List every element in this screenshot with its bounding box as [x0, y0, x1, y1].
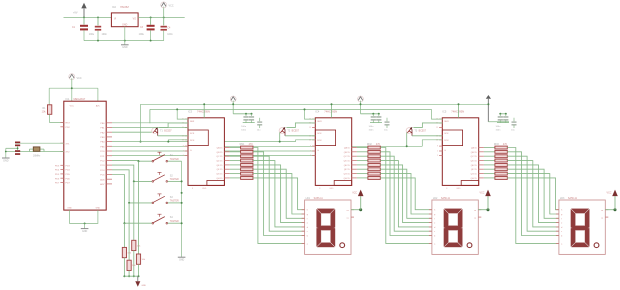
display LD2 segments figure 8	[444, 209, 462, 247]
capacitor C6 load cap lower	[15, 150, 20, 155]
wire T2 emitter elbow	[286, 123, 315, 128]
svg-text:QB 15: QB 15	[216, 152, 223, 154]
wire IC1 GND pins	[70, 210, 98, 223]
resistor R33 and wire to display segment	[484, 155, 559, 231]
supply arrow down resistor common	[135, 276, 146, 287]
node C3 junction	[150, 16, 152, 18]
supply VCC arrow module 1	[230, 96, 252, 115]
capacitor C4	[161, 17, 174, 36]
svg-text:QF 15: QF 15	[344, 169, 351, 171]
svg-text:QD 15: QD 15	[471, 161, 478, 163]
wire column to resistor R5	[123, 223, 125, 247]
svg-text:GND: GND	[456, 188, 461, 190]
wire C4 to rail	[163, 31, 165, 41]
svg-text:c: c	[307, 231, 308, 233]
transistor T2	[279, 127, 299, 136]
svg-text:SA56-11: SA56-11	[441, 197, 451, 200]
svg-text:R1: R1	[42, 107, 46, 110]
svg-text:+9V: +9V	[73, 12, 78, 15]
wire S4 to ground rail	[168, 222, 182, 224]
svg-text:QG 15: QG 15	[344, 174, 351, 176]
capacitors bypass module 2	[369, 114, 383, 132]
svg-text:RCK: RCK	[190, 140, 195, 142]
seven segment display LD2	[429, 197, 481, 255]
supply VCC arrow above IC1	[69, 74, 82, 89]
wire T2 base riser	[279, 132, 281, 142]
resistor R3 pullup	[132, 240, 142, 250]
resistor R21 and wire to display segment	[357, 146, 432, 243]
svg-text:100n: 100n	[102, 33, 108, 36]
wire rail2 drop to IC3 pin 10	[176, 108, 188, 119]
svg-text:RN1: RN1	[240, 143, 245, 146]
wire rail2 drop to IC5 pin 10	[432, 109, 443, 119]
svg-text:100n: 100n	[496, 126, 502, 128]
shift register IC3 74HC595 module 1	[188, 109, 224, 185]
svg-text:QE 15: QE 15	[216, 165, 223, 167]
wire C1 branch	[83, 17, 85, 24]
capacitor C5 load cap upper	[15, 142, 20, 147]
svg-text:QB 15: QB 15	[344, 152, 351, 154]
svg-text:100n: 100n	[241, 129, 247, 131]
wire T2 collector to IC4	[285, 135, 315, 137]
svg-text:78L05Z: 78L05Z	[120, 5, 129, 9]
svg-text:AVC: AVC	[96, 105, 101, 108]
svg-text:2: 2	[437, 155, 438, 157]
node VCC junction above IC1	[71, 87, 73, 89]
resistor R17 and wire to display segment	[230, 172, 305, 214]
svg-text:RN2: RN2	[367, 143, 372, 146]
svg-text:100n: 100n	[167, 33, 173, 36]
wire regulator output net	[138, 16, 185, 18]
svg-text:PD5: PD5	[55, 174, 60, 176]
svg-text:SA56-11: SA56-11	[568, 197, 578, 200]
svg-text:2: 2	[310, 155, 311, 157]
svg-text:RCK: RCK	[317, 140, 322, 142]
svg-text:10k: 10k	[42, 111, 47, 114]
svg-text:T1: T1	[160, 130, 163, 133]
display LD1 decimal point	[340, 243, 345, 248]
transistor T1	[152, 127, 172, 136]
display LD3 segments figure 8	[571, 209, 589, 247]
svg-text:1: 1	[437, 151, 438, 153]
wire L1 tap to IC3 RCK	[167, 140, 188, 143]
svg-text:100n: 100n	[369, 126, 375, 128]
wire IC1 PB0 to IC3 SER	[112, 122, 188, 124]
svg-text:BC557: BC557	[292, 130, 300, 133]
resistor R25 and wire to display segment	[357, 164, 432, 223]
svg-text:8: 8	[446, 188, 447, 190]
svg-text:VCC: VCC	[70, 106, 75, 108]
switch S4	[152, 214, 179, 224]
svg-text:SCK: SCK	[317, 133, 322, 135]
resistor R31 and wire to display segment	[484, 146, 559, 243]
svg-text:TASTER: TASTER	[170, 220, 179, 223]
wire XTAL1 net	[15, 142, 64, 144]
wire R1 to reset pin	[50, 114, 64, 122]
svg-text:BC557: BC557	[164, 130, 172, 133]
label resistor network 1	[240, 143, 254, 146]
wire C3 to rail	[150, 30, 152, 40]
svg-text:LD2: LD2	[433, 197, 438, 200]
svg-text:g: g	[307, 214, 308, 216]
resistor R15 and wire to display segment	[230, 164, 305, 223]
svg-text:QF 15: QF 15	[471, 169, 478, 171]
wire clock bus L2	[112, 145, 422, 147]
wire S2 to ground rail	[168, 180, 182, 182]
resistor R18 and wire to display segment	[230, 177, 305, 210]
svg-text:T3: T3	[414, 130, 417, 133]
svg-text:VO: VO	[133, 19, 137, 21]
wire data bus L3	[112, 150, 315, 152]
microcontroller IC1	[64, 97, 106, 210]
svg-text:MEGA8-P: MEGA8-P	[74, 97, 86, 101]
svg-text:RST: RST	[66, 123, 71, 125]
svg-text:QH 15: QH 15	[471, 178, 478, 180]
svg-text:SER: SER	[444, 121, 449, 123]
wire IC1 PB1 staircase	[112, 127, 188, 129]
pin stubs IC4 right	[352, 148, 357, 178]
wire R5 to common	[123, 258, 125, 278]
svg-text:8: 8	[192, 188, 193, 190]
wire bus L1 riser to IC4	[296, 140, 316, 142]
svg-text:GND: GND	[3, 159, 9, 162]
svg-text:QF 15: QF 15	[217, 169, 224, 171]
svg-text:TASTER: TASTER	[170, 200, 179, 203]
seven segment display LD1	[302, 197, 354, 255]
wire R4 to common	[128, 271, 130, 278]
wire data bus L4	[112, 154, 315, 156]
wire rail2 left drop	[149, 109, 151, 123]
resistor R2 pullup	[136, 254, 146, 264]
svg-text:GND: GND	[96, 207, 101, 209]
svg-text:470: 470	[376, 143, 381, 146]
display LD3 decimal point	[594, 243, 599, 248]
capacitors bypass module 3	[496, 114, 510, 132]
switch S2	[152, 172, 179, 182]
pin stubs IC5 left	[436, 119, 461, 190]
crystal Q1	[30, 147, 45, 158]
svg-text:1: 1	[310, 151, 311, 153]
shift register IC5 74HC595 module 3	[442, 109, 478, 185]
supply VCC arrow module 2	[358, 96, 380, 115]
svg-text:RN3: RN3	[494, 143, 499, 146]
svg-text:QG 15: QG 15	[216, 174, 223, 176]
svg-text:TASTER: TASTER	[170, 178, 179, 181]
svg-text:VI: VI	[114, 19, 117, 21]
svg-text:QG 15: QG 15	[471, 174, 478, 176]
svg-text:470: 470	[503, 143, 508, 146]
svg-text:IC5: IC5	[442, 109, 447, 113]
svg-text:QD 15: QD 15	[216, 161, 223, 163]
display LD2 decimal point	[467, 243, 472, 248]
wire column to resistor R4	[128, 203, 130, 260]
wire T3 base riser	[406, 132, 408, 147]
transistor T3	[406, 127, 426, 136]
switch S1	[152, 152, 179, 162]
pin stubs IC4 left	[309, 119, 334, 190]
wire T3 emitter elbow	[413, 123, 442, 128]
svg-text:QB 15: QB 15	[471, 152, 478, 154]
ground GND under IC1	[81, 229, 89, 233]
supply +9V arrow P1	[73, 3, 87, 18]
capacitor bulk module 3	[511, 118, 517, 132]
svg-text:IC2: IC2	[112, 6, 117, 9]
capacitor C3	[139, 17, 155, 36]
wire IC1 to switch S4	[112, 175, 152, 225]
svg-text:GND: GND	[329, 188, 334, 190]
pin stubs IC5 right	[479, 148, 484, 178]
pin stubs IC1 left	[60, 123, 63, 183]
svg-text:d: d	[434, 227, 435, 229]
node C2 junction	[97, 16, 99, 18]
ground GND power section	[121, 45, 129, 49]
svg-text:S2: S2	[170, 174, 174, 177]
svg-text:10u: 10u	[384, 129, 388, 131]
svg-text:QH 15: QH 15	[216, 178, 223, 180]
wire R3 to common	[133, 251, 135, 278]
svg-text:S4: S4	[170, 216, 174, 219]
ground GND switches	[178, 257, 186, 261]
svg-text:100n: 100n	[241, 126, 247, 128]
svg-text:GND: GND	[122, 46, 128, 49]
node rail junctions	[97, 40, 152, 42]
svg-text:C4: C4	[167, 26, 171, 29]
wire supply input net	[64, 16, 112, 18]
svg-text:T2: T2	[287, 130, 290, 133]
pin labels IC1 lower-left port pins	[55, 165, 60, 184]
wire IC1 to switch S2	[112, 165, 152, 182]
wire T1 collector to IC3	[158, 135, 188, 137]
ground GND crystal	[2, 158, 10, 162]
wire T3 collector to IC5	[412, 135, 442, 137]
svg-text:h: h	[561, 210, 562, 212]
wire ground rail of power section	[84, 40, 164, 42]
wire switch ground rail	[181, 161, 183, 257]
resistor R35 and wire to display segment	[484, 164, 559, 223]
wire rail1 left drop	[140, 104, 142, 141]
svg-text:BC557: BC557	[419, 130, 427, 133]
pin stubs IC3 right	[224, 148, 229, 178]
wire rail2 drop to IC4 pin 10	[304, 108, 316, 119]
node XTAL2 junction	[5, 147, 19, 152]
node VCC output junction	[163, 16, 165, 18]
shift register IC4 74HC595 module 2	[315, 109, 351, 185]
pin stubs IC1 right	[106, 123, 112, 184]
svg-text:SER: SER	[190, 121, 195, 123]
wire column to resistor R2	[138, 161, 140, 254]
resistor R38 and wire to display segment	[484, 177, 559, 210]
wire C1 to rail	[83, 30, 85, 40]
wire IC1 ground drop	[84, 223, 86, 228]
svg-text:RCK: RCK	[444, 140, 449, 142]
svg-text:PD6: PD6	[55, 178, 60, 180]
svg-text:9: 9	[310, 146, 311, 148]
svg-text:8: 8	[319, 188, 320, 190]
wire S3 to ground rail	[168, 202, 182, 204]
wire rail1 drop to IC3	[203, 103, 205, 118]
pin stubs IC3 left	[182, 119, 207, 190]
svg-text:QC 15: QC 15	[344, 156, 351, 158]
wire S1 to ground rail	[168, 160, 182, 162]
svg-text:74HC595N: 74HC595N	[324, 109, 337, 113]
resistor R26 and wire to display segment	[357, 168, 432, 219]
svg-text:TASTER: TASTER	[170, 158, 179, 161]
node IC1 ground junction	[84, 222, 86, 224]
svg-text:QC 15: QC 15	[471, 156, 478, 158]
svg-text:QE 15: QE 15	[471, 165, 478, 167]
capacitor C2	[95, 17, 108, 36]
display LD1 segments figure 8	[317, 209, 335, 247]
resistor R12 and wire to display segment	[230, 150, 305, 235]
svg-text:SCK: SCK	[190, 133, 195, 135]
resistor R37 and wire to display segment	[484, 172, 559, 214]
resistor R32 and wire to display segment	[484, 150, 559, 235]
wire resistor common rail	[124, 275, 138, 277]
svg-text:1: 1	[183, 151, 184, 153]
svg-text:GND: GND	[142, 285, 147, 287]
svg-text:11: 11	[436, 127, 438, 129]
node supply input junction	[83, 16, 85, 18]
wire regulator GND pin	[124, 27, 126, 45]
supply VCC arrow display LD2	[478, 190, 491, 212]
node rail1 drop junction	[140, 141, 142, 143]
resistor R4 pullup	[127, 260, 137, 270]
svg-text:C3: C3	[140, 26, 144, 29]
svg-text:c: c	[434, 231, 435, 233]
resistor R16 and wire to display segment	[230, 168, 305, 219]
resistor R28 and wire to display segment	[357, 177, 432, 210]
svg-text:SA56-11: SA56-11	[314, 197, 324, 200]
supply VCC arrow module 3	[486, 95, 509, 122]
capacitor bulk module 1	[257, 118, 263, 132]
wire IC1 to switch S1	[112, 160, 152, 162]
svg-text:GND: GND	[179, 259, 185, 262]
svg-text:S3: S3	[170, 196, 174, 199]
svg-text:10k: 10k	[137, 245, 141, 247]
svg-text:QE 15: QE 15	[344, 165, 351, 167]
wire IC1 PB2 to T1 base	[112, 131, 152, 133]
svg-text:2: 2	[183, 155, 184, 157]
svg-text:c: c	[561, 231, 562, 233]
wire second top rail	[150, 108, 432, 110]
wire R2 to common	[138, 264, 140, 277]
wire top VCC rail	[141, 103, 488, 105]
resistor R13 and wire to display segment	[230, 155, 305, 231]
svg-text:10u: 10u	[257, 129, 261, 131]
svg-text:d: d	[307, 227, 308, 229]
svg-text:100n: 100n	[369, 129, 375, 131]
wire VCC to IC1 power pins	[49, 88, 98, 105]
svg-text:PD3: PD3	[55, 165, 60, 167]
svg-text:IC4: IC4	[315, 109, 320, 113]
svg-text:QA 15: QA 15	[344, 147, 351, 150]
voltage regulator IC2 78L05	[111, 5, 138, 27]
seven segment display LD3	[556, 197, 608, 255]
svg-text:GND: GND	[82, 230, 88, 233]
svg-text:PD7: PD7	[55, 183, 60, 185]
svg-text:11: 11	[309, 127, 311, 129]
svg-text:VCC: VCC	[607, 193, 612, 195]
svg-text:QA 15: QA 15	[471, 147, 478, 150]
svg-text:74HC595N: 74HC595N	[451, 109, 464, 113]
capacitor C1	[72, 25, 95, 36]
svg-text:LD3: LD3	[560, 197, 565, 200]
svg-text:g: g	[561, 214, 562, 216]
resistor R22 and wire to display segment	[357, 150, 432, 235]
svg-text:g: g	[434, 214, 435, 216]
resistor R14 and wire to display segment	[230, 159, 305, 227]
svg-text:d: d	[561, 227, 562, 229]
resistor R11 and wire to display segment	[230, 146, 305, 243]
label resistor network 3	[494, 143, 508, 146]
svg-text:GND: GND	[67, 207, 72, 209]
wire rail1 drop to IC4	[331, 103, 333, 118]
wire clock bus L1	[112, 141, 296, 143]
wire C2 to rail	[97, 31, 99, 41]
svg-text:16MHz: 16MHz	[33, 156, 41, 158]
svg-text:VCC: VCC	[480, 193, 485, 195]
svg-text:100n: 100n	[496, 129, 502, 131]
wire T1 emitter elbow	[159, 123, 188, 128]
supply VCC arrow display LD1	[351, 190, 364, 212]
wire IC1 to switch S3	[112, 170, 152, 204]
svg-text:IC1: IC1	[66, 98, 71, 101]
svg-text:SCK: SCK	[444, 133, 449, 135]
svg-text:PD4: PD4	[55, 170, 60, 172]
svg-text:10k: 10k	[132, 265, 136, 267]
svg-text:SER: SER	[317, 121, 322, 123]
svg-text:10k: 10k	[142, 259, 146, 261]
svg-text:10k: 10k	[127, 252, 131, 254]
svg-text:9: 9	[437, 146, 438, 148]
svg-text:h: h	[434, 210, 435, 212]
supply VCC arrow above regulator output	[161, 2, 174, 18]
wire bus L2 riser to IC5	[422, 140, 442, 147]
svg-text:h: h	[307, 210, 308, 212]
svg-text:100u: 100u	[89, 33, 95, 36]
resistor R1 10k	[42, 105, 52, 115]
wire load caps middle to ground	[6, 146, 18, 158]
wire XTAL2 net	[6, 151, 64, 153]
svg-text:GND: GND	[202, 188, 207, 190]
label resistor network 2	[367, 143, 381, 146]
wire rail1 drop to IC5	[458, 103, 460, 118]
svg-text:74HC595N: 74HC595N	[197, 109, 210, 113]
svg-text:QH 15: QH 15	[344, 178, 351, 180]
svg-text:9: 9	[183, 146, 184, 148]
svg-text:QA 15: QA 15	[217, 147, 224, 150]
svg-text:100u: 100u	[139, 33, 145, 36]
resistor R34 and wire to display segment	[484, 159, 559, 227]
svg-text:470: 470	[249, 143, 254, 146]
svg-text:C1: C1	[72, 26, 76, 29]
resistor R5 pullup	[122, 247, 132, 257]
svg-text:QC 15: QC 15	[216, 156, 223, 158]
supply VCC arrow display LD3	[605, 190, 618, 212]
switch S3	[152, 194, 179, 204]
resistor R36 and wire to display segment	[484, 168, 559, 219]
svg-text:LD1: LD1	[306, 197, 311, 200]
wire column to resistor R3	[133, 181, 135, 240]
resistor R27 and wire to display segment	[357, 172, 432, 214]
svg-text:VCC: VCC	[77, 77, 82, 80]
capacitors bypass module 1	[241, 114, 255, 132]
svg-text:QD 15: QD 15	[344, 161, 351, 163]
svg-text:10u: 10u	[511, 129, 515, 131]
svg-text:IC3: IC3	[188, 109, 193, 113]
resistor R23 and wire to display segment	[357, 155, 432, 231]
svg-text:GND: GND	[122, 24, 127, 26]
